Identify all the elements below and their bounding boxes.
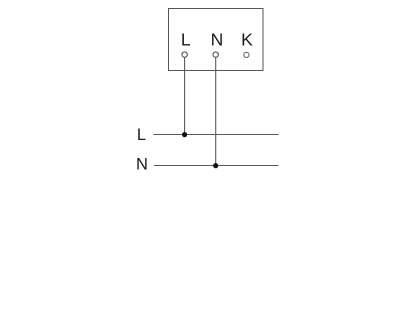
svg-text:N: N bbox=[211, 30, 224, 50]
wire from pin L down to L line bbox=[184, 57, 186, 135]
junction dot on N line bbox=[213, 163, 218, 168]
terminal circle pin N bbox=[213, 52, 218, 57]
wire from pin N down to N line bbox=[215, 57, 217, 166]
wire N line (horizontal) bbox=[154, 165, 279, 167]
svg-text:L: L bbox=[137, 126, 146, 144]
svg-text:L: L bbox=[181, 30, 191, 50]
terminal circle pin L bbox=[182, 52, 187, 57]
device box U1 bbox=[169, 9, 264, 71]
svg-text:N: N bbox=[136, 155, 148, 173]
junction dot on L line bbox=[182, 132, 187, 137]
wire L line (horizontal) bbox=[154, 134, 279, 136]
terminal circle pin K bbox=[244, 52, 249, 57]
svg-text:K: K bbox=[241, 30, 253, 50]
